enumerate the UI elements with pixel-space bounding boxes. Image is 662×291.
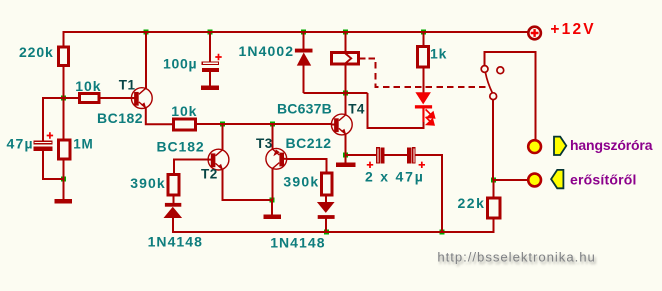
- svg-text:1N4148: 1N4148: [148, 233, 203, 249]
- wire T4 collector: [345, 93, 347, 115]
- wire rail 10k R4 to T4 base: [197, 123, 332, 125]
- LED D4 emission arrows: [426, 109, 435, 124]
- svg-text:hangszóróra: hangszóróra: [570, 137, 653, 153]
- junction T2/T3 emitters: [270, 197, 275, 202]
- junction top rail / R7: [421, 30, 426, 35]
- label C1 polarity +: [215, 54, 221, 60]
- relay contact fixed B: [497, 67, 504, 74]
- svg-text:T2: T2: [201, 167, 218, 182]
- capacitor C2 47u: [33, 141, 52, 151]
- wire 1k R7 to LED: [423, 68, 425, 93]
- resistor R4 10k: [174, 119, 196, 130]
- svg-text:390k: 390k: [283, 174, 319, 190]
- svg-text:BC637B: BC637B: [277, 100, 332, 116]
- wire 22k R8 to bottom rail: [492, 219, 494, 232]
- wire node A left to 47u: [43, 98, 65, 141]
- svg-text:BC182: BC182: [97, 110, 143, 126]
- wire T3 collector down: [271, 169, 273, 200]
- wire node C horizontal: [304, 92, 368, 94]
- junction top rail / C1: [208, 30, 213, 35]
- resistor R1 220k: [59, 47, 69, 66]
- relay K1 coil: [331, 53, 358, 65]
- wire T1 collector: [145, 31, 147, 89]
- svg-text:47µ: 47µ: [7, 135, 34, 151]
- junction node B 1M/47u: [61, 177, 66, 182]
- wire 1N4002 anode down: [303, 65, 305, 93]
- wire T2 base left: [174, 160, 209, 174]
- label C2 polarity +: [47, 132, 53, 138]
- wire switch top to speaker: [484, 52, 535, 140]
- icon J2 arrow in: [551, 170, 563, 188]
- diode D2 1N4148: [164, 203, 183, 218]
- wire T3 base right: [286, 159, 327, 172]
- ground under 100u: [201, 86, 219, 91]
- svg-text:390k: 390k: [130, 175, 166, 191]
- wire 100u top lead: [209, 31, 211, 61]
- ground under T2/T3 emitters: [263, 215, 281, 220]
- transistor T2 BC182: [208, 149, 229, 170]
- junction T4 emitter / C3: [343, 153, 348, 158]
- junction node C relay/T4/D1/LED: [343, 91, 348, 96]
- wire relay actuation dashed link: [369, 59, 490, 88]
- wire T4 emitter to C3: [346, 154, 377, 156]
- resistor R5 390k: [168, 175, 179, 196]
- ground under T4 emitter: [336, 162, 356, 167]
- connector J1 speaker terminal: [528, 140, 541, 153]
- wire T4 emitter: [345, 135, 347, 156]
- icon J1 arrow out: [554, 137, 566, 155]
- diode D1 1N4002: [295, 49, 313, 66]
- svg-text:1N4002: 1N4002: [239, 43, 295, 59]
- junction top rail / D1: [301, 30, 306, 35]
- relay contact fixed A: [481, 66, 488, 73]
- wire T3 emitter top: [271, 124, 273, 149]
- wire switch pole down: [492, 99, 494, 180]
- capacitor C1 100u: [202, 62, 219, 72]
- svg-text:BC212: BC212: [286, 135, 332, 151]
- power terminal +12V: [528, 27, 541, 40]
- wire 220k bottom to node A: [63, 67, 65, 98]
- svg-text:10k: 10k: [75, 78, 101, 94]
- svg-text:1M: 1M: [73, 136, 93, 151]
- LED D4: [415, 92, 432, 122]
- wire 47u bottom to node B: [43, 151, 64, 180]
- label C3 polarity +: [367, 162, 373, 168]
- transistor T4 BC637B: [331, 114, 352, 135]
- capacitor C4 47u: [407, 147, 415, 163]
- resistor R3 1M: [59, 140, 70, 159]
- wire node A to 1M top: [62, 98, 64, 138]
- connector J2 amplifier terminal: [528, 174, 541, 187]
- wire C4 to bottom rail: [416, 155, 442, 233]
- svg-text:2 x 47µ: 2 x 47µ: [365, 168, 425, 184]
- wire LED return path: [368, 93, 424, 128]
- wire T1 emitter to rail: [146, 108, 172, 125]
- diode D3 1N4148: [317, 202, 335, 219]
- resistor R6 390k: [322, 173, 333, 195]
- wire 1M bottom to ground: [62, 160, 64, 199]
- junction node A: [61, 96, 66, 101]
- svg-text:22k: 22k: [458, 195, 486, 211]
- wire relay coil bottom: [344, 65, 346, 93]
- svg-text:1N4148: 1N4148: [270, 234, 325, 250]
- wire T2 collector: [221, 124, 223, 150]
- junction rail / T3 emitter: [270, 122, 275, 127]
- resistor R7 1k: [418, 47, 429, 67]
- junction node D pole/22k/J2: [491, 178, 496, 183]
- wire T4 emitter to ground: [345, 155, 347, 163]
- wire 220k top lead: [63, 31, 65, 46]
- transistor T1 BC182: [131, 88, 152, 109]
- wire bottom rail: [173, 231, 494, 233]
- wire 1N4002 top lead: [303, 31, 305, 49]
- label C4 polarity +: [419, 162, 425, 168]
- svg-text:BC182: BC182: [157, 139, 205, 155]
- wire 10k R2 to T1 base: [101, 97, 137, 99]
- wire node A to 10k R2: [64, 97, 79, 99]
- wire 390k R6 to diode D3: [325, 197, 327, 203]
- wire C3 to C4: [385, 154, 408, 156]
- wire T2/T3 emitters to ground: [271, 200, 273, 215]
- wire 390k R5 to diode D2: [173, 197, 175, 204]
- ground under 1M/47u: [54, 199, 72, 204]
- junction bottom rail / D3: [324, 230, 329, 235]
- svg-text:erősítőről: erősítőről: [570, 172, 637, 188]
- svg-text:T3: T3: [256, 136, 273, 151]
- wire 1k R7 top lead: [423, 31, 425, 46]
- wire node D to connector J2: [493, 179, 527, 181]
- relay contact pole: [490, 93, 497, 100]
- svg-text:http://bsselektronika.hu: http://bsselektronika.hu: [437, 250, 595, 265]
- transistor T3 BC212: [266, 148, 287, 169]
- svg-text:220k: 220k: [19, 44, 54, 60]
- svg-text:T4: T4: [348, 101, 365, 116]
- wire D3 cathode to bottom rail: [325, 219, 327, 234]
- wire D2 anode to bottom rail: [172, 218, 174, 234]
- svg-text:+12V: +12V: [550, 21, 595, 38]
- relay contact arm: [485, 72, 492, 93]
- svg-text:100µ: 100µ: [163, 56, 197, 72]
- junction bottom rail / C4: [439, 230, 444, 235]
- svg-text:10k: 10k: [171, 103, 197, 119]
- junction rail / T2 collector: [220, 122, 225, 127]
- resistor R8 22k: [488, 198, 501, 218]
- junction top rail / relay: [343, 30, 348, 35]
- wire relay contact stub: [360, 58, 366, 60]
- capacitor C3 47u: [377, 147, 385, 163]
- svg-text:T1: T1: [119, 77, 136, 92]
- resistor R2 10k: [80, 94, 100, 103]
- wire 100u bottom to ground: [209, 72, 211, 86]
- junction top rail / T1 collector: [143, 30, 148, 35]
- wire relay coil top lead: [344, 31, 346, 52]
- wire T2 emitter down: [222, 169, 272, 200]
- wire node D to 22k R8: [493, 180, 495, 197]
- wire top +12V rail: [64, 31, 529, 33]
- svg-text:1k: 1k: [430, 46, 447, 62]
